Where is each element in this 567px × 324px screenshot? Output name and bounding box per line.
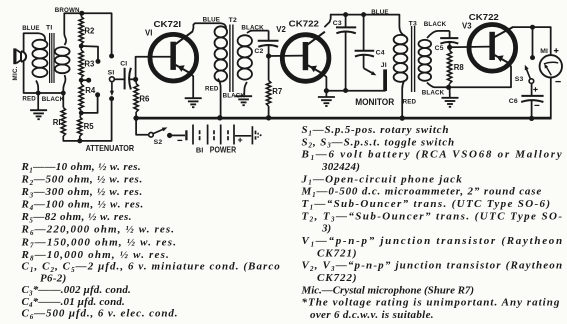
- transformer T2 secondary: [238, 35, 252, 46]
- svg-text:V2: V2: [276, 25, 286, 34]
- wire monitor ground: [326, 90, 385, 92]
- transformer T2 primary: [215, 26, 228, 37]
- svg-text:VI: VI: [145, 28, 152, 37]
- svg-text:MI: MI: [540, 48, 548, 55]
- T1 secondary top lead to BROWN rail: [64, 13, 66, 45]
- svg-text:CI: CI: [120, 60, 127, 67]
- battery B1 last cell: [251, 126, 253, 144]
- node C4 tap: [361, 12, 366, 17]
- svg-text:Mic.—Crystal microphone (Shure: Mic.—Crystal microphone (Shure R7): [301, 284, 475, 296]
- svg-text:M1—0-500 d.c. microammeter, 2”: M1—0-500 d.c. microammeter, 2” round cas…: [301, 186, 543, 199]
- svg-text:S3: S3: [515, 76, 524, 83]
- wire mic bottom / RED junction: [24, 61, 64, 93]
- minus C6: [534, 104, 539, 106]
- T1 core: [49, 33, 51, 83]
- svg-text:T2: T2: [229, 17, 237, 24]
- node R4/R5 tap: [79, 111, 84, 116]
- microphone Mic: [13, 48, 26, 64]
- switch S1: [110, 77, 115, 82]
- capacitor C4: [363, 15, 365, 51]
- svg-text:C6: C6: [509, 98, 518, 105]
- minus M1: [555, 81, 560, 83]
- svg-text:R3: R3: [84, 60, 95, 69]
- node C6/rail: [529, 116, 534, 121]
- wire C5 junction to V3 base: [450, 46, 490, 49]
- plus battery: [238, 138, 242, 142]
- svg-text:S2, S3—S.p.s.t. toggle switch: S2, S3—S.p.s.t. toggle switch: [302, 136, 456, 149]
- svg-text:CK72I: CK72I: [154, 20, 182, 29]
- node C5/R8: [447, 45, 452, 50]
- T3 core: [411, 26, 413, 92]
- node R5 bottom: [77, 138, 82, 143]
- svg-text:R6: R6: [139, 94, 150, 103]
- T1 secondary bottom lead: [63, 75, 65, 93]
- contact 1: [109, 54, 114, 59]
- svg-text:R2—500 ohm, ½ w. res.: R2—500 ohm, ½ w. res.: [21, 174, 144, 187]
- transistor V1: [150, 31, 197, 81]
- battery B1: [185, 130, 187, 140]
- contact 5: [109, 96, 114, 101]
- svg-text:C2: C2: [254, 48, 263, 55]
- svg-text:R5: R5: [84, 122, 95, 131]
- wire V2 collector to top rail: [325, 15, 331, 27]
- wire meter top: [550, 27, 552, 55]
- svg-text:ATTENUATOR: ATTENUATOR: [86, 143, 135, 153]
- svg-text:C4: C4: [376, 49, 385, 56]
- transistor V3: [469, 25, 516, 72]
- capacitor C6: [531, 83, 533, 95]
- svg-text:R5—82 ohm, ½ w. res.: R5—82 ohm, ½ w. res.: [21, 211, 133, 224]
- svg-text:JI: JI: [381, 62, 387, 69]
- node C3/monitor wire: [343, 88, 348, 93]
- ground under T1: [37, 93, 39, 110]
- svg-text:C5: C5: [435, 45, 444, 52]
- node BLACK/R1: [61, 91, 66, 96]
- resistor R6: [135, 79, 137, 83]
- svg-text:CK722): CK722): [317, 272, 358, 284]
- svg-text:3): 3): [321, 223, 331, 235]
- wire top rail to T3: [331, 14, 400, 16]
- plus M1: [554, 48, 559, 53]
- wire V3 emitter return: [449, 63, 511, 88]
- node T2/rail: [217, 115, 222, 120]
- node S3 tap: [530, 25, 535, 30]
- svg-text:BLUE: BLUE: [22, 25, 39, 32]
- node R2/R3 tap: [79, 44, 84, 49]
- svg-text:R8: R8: [454, 63, 465, 72]
- wire attenuator bottom: [63, 101, 111, 141]
- svg-text:RI: RI: [53, 118, 61, 127]
- transformer T3 primary: [394, 35, 408, 44]
- ground V2 emitter: [325, 91, 327, 97]
- minus battery: [177, 139, 182, 141]
- T1 primary bottom lead: [36, 81, 38, 94]
- wire V1 collector to T2: [193, 23, 220, 31]
- resistor R5: [80, 113, 81, 117]
- capacitor C2: [268, 31, 270, 41]
- meter M1: [540, 55, 562, 77]
- wire tap4: [81, 97, 97, 113]
- svg-text:BLACK: BLACK: [241, 24, 264, 31]
- wire C2 junction to V2 base: [269, 55, 303, 57]
- svg-text:BLACK: BLACK: [422, 89, 445, 96]
- svg-text:S1—S.p.5-pos. rotary switch: S1—S.p.5-pos. rotary switch: [302, 124, 450, 137]
- svg-text:R2: R2: [84, 27, 95, 36]
- switch S2: [149, 133, 154, 138]
- jack J1 tip arrow: [363, 55, 365, 68]
- T3 secondary bottom lead: [427, 83, 449, 88]
- wire C1 junction to V1 base: [136, 57, 171, 80]
- svg-text:MIC.: MIC.: [12, 66, 19, 80]
- svg-text:S2: S2: [154, 139, 163, 146]
- wire BROWN rail: [64, 13, 111, 53]
- ground V1 emitter: [185, 97, 202, 99]
- resistor R7: [268, 56, 270, 81]
- switch S3: [530, 55, 535, 60]
- svg-text:R7: R7: [272, 87, 282, 96]
- svg-text:BLUE: BLUE: [203, 17, 220, 24]
- svg-text:V2, V3—“p-n-p” junction transi: V2, V3—“p-n-p” junction transistor (Rayt…: [302, 260, 564, 273]
- node S2 contact: [167, 133, 172, 138]
- svg-text:CK721): CK721): [317, 247, 358, 259]
- svg-text:R3—300 ohm, ½ w. res.: R3—300 ohm, ½ w. res.: [21, 186, 144, 199]
- svg-text:BLACK: BLACK: [42, 96, 65, 103]
- jack J1 sleeve bar: [383, 69, 387, 91]
- node V2 emitter/ground: [324, 88, 329, 93]
- wire tap2: [81, 46, 98, 59]
- svg-text:T2, T3—“Sub-Ouncer” trans. (UT: T2, T3—“Sub-Ouncer” trans. (UTC Type SO-: [302, 210, 564, 223]
- svg-text:B1—6 volt battery (RCA VSO68 o: B1—6 volt battery (RCA VSO68 or Mallory: [301, 149, 564, 162]
- node R6/rail: [133, 115, 138, 120]
- resistor R2: [80, 13, 82, 16]
- svg-text:R4—100 ohm, ½ w. res.: R4—100 ohm, ½ w. res.: [21, 199, 145, 212]
- T2 secondary bottom lead: [244, 82, 247, 95]
- wire power rail: [136, 117, 552, 120]
- svg-text:R1——10 ohm, ½ w. res.: R1——10 ohm, ½ w. res.: [21, 161, 141, 174]
- wire battery mid: [235, 135, 251, 137]
- T3 primary bottom lead: [402, 81, 404, 118]
- resistor R8: [449, 47, 451, 50]
- svg-text:BLACK: BLACK: [223, 92, 246, 99]
- node T3/rail: [400, 115, 405, 120]
- svg-text:T3: T3: [409, 20, 417, 27]
- wire meter bottom: [550, 78, 552, 119]
- svg-text:CK722: CK722: [469, 13, 500, 22]
- svg-text:POWER: POWER: [210, 146, 236, 155]
- svg-text:R4: R4: [85, 86, 96, 95]
- svg-text:P6-2): P6-2): [40, 272, 67, 284]
- svg-text:BLUE: BLUE: [371, 9, 388, 16]
- capacitor C3: [345, 15, 347, 28]
- svg-text:*The voltage rating is unimpor: *The voltage rating is unimportant. Any …: [302, 297, 561, 309]
- node C3 tap: [343, 12, 348, 17]
- contact 4: [95, 92, 100, 97]
- resistor R4: [80, 80, 82, 84]
- svg-text:C6—500 μfd., 6 v. elec. cond.: C6—500 μfd., 6 v. elec. cond.: [22, 308, 179, 321]
- capacitor C5: [449, 31, 451, 38]
- ground T2 secondary: [235, 95, 252, 97]
- svg-text:V1—“p-n-p” junction transistor: V1—“p-n-p” junction transistor (Raytheon: [302, 235, 564, 248]
- node R3/R4 tap: [79, 78, 84, 83]
- svg-text:TI: TI: [46, 24, 52, 31]
- svg-text:MONITOR: MONITOR: [355, 97, 395, 107]
- node RED/ground: [36, 91, 41, 96]
- T2 primary bottom lead: [218, 79, 221, 118]
- ground T3/R8/V3: [449, 87, 451, 97]
- resistor R1: [62, 93, 64, 108]
- resistor R3: [80, 46, 82, 50]
- svg-text:302424): 302424): [321, 161, 360, 173]
- capacitor C1: [114, 78, 124, 80]
- svg-text:CK722: CK722: [289, 19, 320, 28]
- node R2 top: [79, 11, 84, 16]
- svg-text:C3: C3: [333, 20, 342, 27]
- svg-text:V3: V3: [462, 21, 472, 30]
- wire S2 to battery: [170, 134, 185, 136]
- node R7/rail: [266, 115, 271, 120]
- svg-text:RED: RED: [22, 96, 36, 103]
- wire mic top to T1 primary: [24, 33, 38, 52]
- svg-text:J1—Open-circuit phone jack: J1—Open-circuit phone jack: [301, 173, 463, 186]
- wire V1 emitter to ground: [188, 72, 193, 97]
- wire V2 emitter down: [321, 73, 327, 91]
- wire rail to S2: [136, 118, 148, 135]
- node R8/emitter/ground: [446, 85, 451, 90]
- T3 secondary top lead: [427, 31, 450, 38]
- svg-text:T1—“Sub-Ouncer” trans. (UTC Ty: T1—“Sub-Ouncer” trans. (UTC Type SO-6): [302, 198, 552, 211]
- svg-text:over 6 d.c.w.v. is suitable.: over 6 d.c.w.v. is suitable.: [310, 309, 434, 321]
- svg-text:R6—220,000 ohm, ½ w. res.: R6—220,000 ohm, ½ w. res.: [21, 224, 176, 237]
- T2 secondary top lead: [247, 31, 269, 33]
- svg-text:BLACK: BLACK: [424, 21, 447, 28]
- svg-text:RED: RED: [205, 85, 219, 92]
- contact 2: [96, 59, 101, 64]
- svg-text:R7—150,000 ohm, ½ w. res.: R7—150,000 ohm, ½ w. res.: [21, 236, 178, 249]
- transistor V2: [282, 32, 329, 82]
- svg-text:SI: SI: [108, 70, 115, 77]
- node C2/R7: [266, 53, 271, 58]
- svg-text:BI: BI: [196, 145, 203, 154]
- contact 3: [86, 78, 91, 83]
- wire S3 drop: [532, 27, 534, 55]
- T2 core: [229, 25, 231, 93]
- node C1/R6: [133, 77, 138, 82]
- transformer T3 secondary: [419, 40, 432, 48]
- svg-text:BROWN: BROWN: [55, 7, 80, 14]
- transformer T1 secondary: [55, 47, 70, 56]
- plus C6: [533, 87, 537, 91]
- transformer T1 primary: [32, 40, 47, 49]
- wire C3 to ground rail: [345, 32, 347, 91]
- svg-text:RED: RED: [403, 98, 417, 105]
- wire V3 collector to meter: [513, 26, 551, 28]
